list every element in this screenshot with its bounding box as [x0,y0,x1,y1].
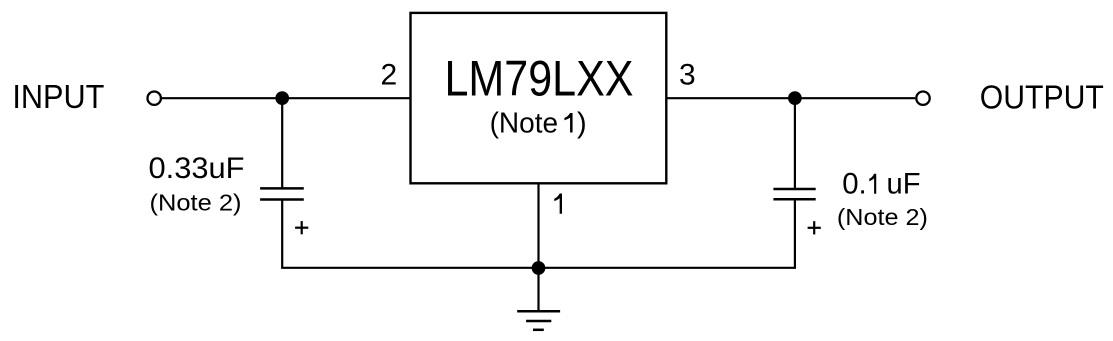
svg-text:2: 2 [380,59,397,92]
node OUTPUT label [980,79,1104,116]
wire C1 bottom plate to ground rail [281,200,283,268]
capacitor C1 plates [260,188,304,199]
regulator U1 label LM79LXX [445,51,634,107]
svg-text:uF: uF [887,168,921,201]
svg-text:INPUT: INPUT [12,78,104,115]
ground [517,311,560,330]
capacitor C2 note label (Note 2) [837,204,928,230]
capacitor C1 polarity plus [295,221,308,234]
pin 1 label [554,194,562,214]
wire regulator pin 3 to output [666,97,915,99]
svg-text:0.: 0. [842,168,867,201]
capacitor C2 value label 0.1uF [842,168,920,201]
regulator note label (Note 1) [490,108,587,140]
output terminal [916,92,929,105]
wire input to regulator pin 2 [162,97,411,99]
regulator U1 box [411,13,667,183]
capacitor C1 value label 0.33uF [149,152,245,185]
svg-text:): ) [577,108,587,140]
pin 2 label [380,59,397,92]
capacitor C1 note label (Note 2) [150,190,242,216]
capacitor C2 plates [773,189,815,199]
svg-text:0.33uF: 0.33uF [149,152,245,185]
svg-text:OUTPUT: OUTPUT [980,79,1104,116]
input terminal [148,92,161,105]
svg-text:(Note: (Note [490,108,558,140]
svg-text:(Note 2): (Note 2) [837,204,928,230]
svg-text:3: 3 [679,59,696,92]
svg-text:LM79LXX: LM79LXX [445,51,634,107]
junction output node [788,91,802,105]
node INPUT label [12,78,104,115]
svg-text:(Note 2): (Note 2) [150,190,242,216]
wire C2 bottom plate to ground rail [794,199,796,268]
pin 3 label [679,59,696,92]
junction ground node [532,261,546,275]
wire ground node to ground symbol [537,268,539,311]
junction input node [275,91,289,105]
wire output node to C2 top plate [794,98,796,190]
ground rail wire [281,267,796,269]
wire input node to C1 top plate [281,98,283,189]
wire regulator pin 1 to ground rail [537,183,539,268]
capacitor C2 polarity plus [808,221,821,234]
